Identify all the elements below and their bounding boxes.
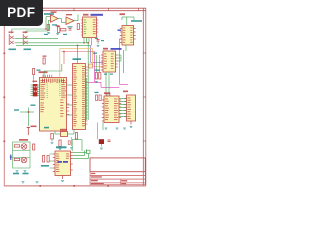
ground C9 xyxy=(70,147,73,149)
wire jack J1 to opamp xyxy=(12,17,51,34)
value label U7 above (teal) xyxy=(56,146,67,148)
connector J2 xyxy=(23,32,28,46)
ground D1 xyxy=(100,147,103,149)
pin labels opamp area xyxy=(44,12,73,36)
wire net bus line 2 xyxy=(15,43,89,120)
net label near VCC xyxy=(44,127,49,129)
resistor R8 below crystal xyxy=(59,140,61,147)
wire bus violet V2 xyxy=(123,50,125,73)
test point TP1 xyxy=(33,69,41,84)
wire crystal right xyxy=(68,130,75,135)
net label TP100 xyxy=(24,49,32,51)
resistor R13 left of U7 xyxy=(43,156,50,163)
pin specks below U2 xyxy=(95,38,104,41)
title block row 4 xyxy=(90,183,145,185)
value label U2 (blue) xyxy=(91,14,104,16)
diode D2 (blue) xyxy=(10,155,12,161)
wire MCU top feed xyxy=(44,64,62,78)
IC IC1 microcontroller xyxy=(39,71,70,131)
IC U5 xyxy=(102,92,121,122)
resistor R12 vertical xyxy=(33,144,35,150)
ground R8 xyxy=(59,148,62,150)
wire U7 left stubs xyxy=(50,154,53,168)
pin specks U4 area xyxy=(93,53,100,71)
wire opamp U1B out xyxy=(74,15,78,21)
wire U5 bottom drop xyxy=(102,123,104,131)
ground transistor 2 xyxy=(24,170,27,172)
IC U3 (top right) xyxy=(120,13,136,45)
resistor R2 xyxy=(56,25,60,32)
wire MCU left pins xyxy=(31,85,40,96)
ground U6 xyxy=(130,126,133,128)
ground opamp stage xyxy=(47,32,50,34)
label RN1 xyxy=(33,81,38,82)
wire net bus line 3 xyxy=(16,44,91,46)
resistor R10 xyxy=(14,145,19,147)
frame top border xyxy=(4,8,146,11)
capacitor C10 xyxy=(95,92,99,101)
resistor R1 xyxy=(47,25,49,31)
resistor R3 xyxy=(61,29,66,31)
wire bus vertical extra xyxy=(85,78,87,120)
title block row 3 xyxy=(90,179,145,185)
wire net magenta M2 xyxy=(119,39,128,84)
wire net magenta M1 xyxy=(85,52,120,88)
net flag green box xyxy=(86,150,90,153)
capacitor C2 below U2 xyxy=(97,40,100,45)
ground marks at bottom xyxy=(22,182,39,183)
ground C2 xyxy=(97,45,100,47)
resistor R11 xyxy=(14,158,19,160)
title block row 2 xyxy=(90,175,145,179)
IC U7 (bottom) xyxy=(53,151,73,179)
capacitor C8 right of D1 xyxy=(108,140,111,142)
resistor R4 left of U2 xyxy=(77,24,79,30)
ground C3 xyxy=(51,141,54,143)
wire net to VCC node xyxy=(14,105,36,127)
op-amp U1B xyxy=(66,17,74,25)
wire U5-U6 links xyxy=(120,99,127,117)
wire net AUDIO bus line 1 xyxy=(15,38,59,40)
diode D1 (dark) xyxy=(98,123,105,147)
wire U2 bottom pins to bus xyxy=(84,38,92,46)
resistor R6 left of U4 xyxy=(99,55,101,79)
resistor R7 above MCU xyxy=(43,56,47,65)
ground U5 pins xyxy=(105,128,126,129)
PDF badge xyxy=(0,0,43,26)
wire IC2 right bus links xyxy=(87,70,90,112)
transistor Q2 xyxy=(19,139,28,149)
capacitor C11 xyxy=(99,95,101,101)
wire U3 bottom to violet xyxy=(125,45,127,51)
crystal Q1 xyxy=(60,129,68,137)
net label Ready xyxy=(9,49,17,51)
wire U4 interconnect vertical xyxy=(106,72,109,96)
ground U4 left xyxy=(95,81,98,83)
connector J1 xyxy=(9,32,14,46)
net flag small box xyxy=(89,64,93,68)
capacitor C9 small xyxy=(68,137,71,146)
title block row 1 xyxy=(90,172,145,176)
wire opamp U1A out to U1B xyxy=(58,19,66,23)
wire loop above U7 xyxy=(72,140,82,151)
value label U4 (blue) xyxy=(111,48,122,50)
supply VCC arrow xyxy=(27,126,37,136)
capacitor C1 xyxy=(69,29,72,31)
wire U7 right nets xyxy=(73,150,89,159)
ground opamp stage 2 xyxy=(56,33,59,35)
wire crystal left xyxy=(55,131,61,134)
IC IC2 (tall, right of MCU) xyxy=(73,64,88,130)
wire bus violet vertical xyxy=(91,45,103,62)
ground transistor 1 xyxy=(16,170,19,172)
net labels below resistors xyxy=(41,165,49,167)
value label IC2 (teal) xyxy=(73,58,82,60)
ground U7 xyxy=(61,180,64,182)
frame bottom border xyxy=(4,185,146,187)
wire U4 right stubs xyxy=(118,55,121,61)
wire U3 top xyxy=(122,17,134,26)
capacitor C3 xyxy=(51,134,54,142)
wire IC2 top feed xyxy=(77,45,79,63)
frame right border xyxy=(143,8,146,186)
pin1 label U3 (blue) xyxy=(118,30,122,31)
transistor Q3 xyxy=(21,157,27,163)
wire MCU-IC2 links xyxy=(67,85,73,115)
wire transistor ladder xyxy=(13,142,31,168)
IC U2 (top middle) xyxy=(81,14,98,38)
value label U7 (blue) xyxy=(58,161,69,163)
junction dots xyxy=(45,28,89,52)
title block main box xyxy=(90,158,145,172)
wire net orange xyxy=(60,49,103,78)
resistor network RN1 xyxy=(33,84,38,96)
resistor R9 right xyxy=(75,133,77,140)
wire net pink-red xyxy=(62,52,95,65)
resistor R5 left of U4 xyxy=(95,55,97,79)
net label top-left xyxy=(44,13,54,15)
IC U6 (far right) xyxy=(123,91,136,125)
net labels transistor block xyxy=(13,173,29,175)
op-amp U1A xyxy=(51,15,59,22)
frame left border xyxy=(3,8,5,186)
net labels below U4 xyxy=(104,74,113,75)
wire jack J2 to opamp xyxy=(26,20,51,33)
IC U4 (mid right) xyxy=(101,48,118,72)
value label U3 (teal) xyxy=(131,20,142,22)
